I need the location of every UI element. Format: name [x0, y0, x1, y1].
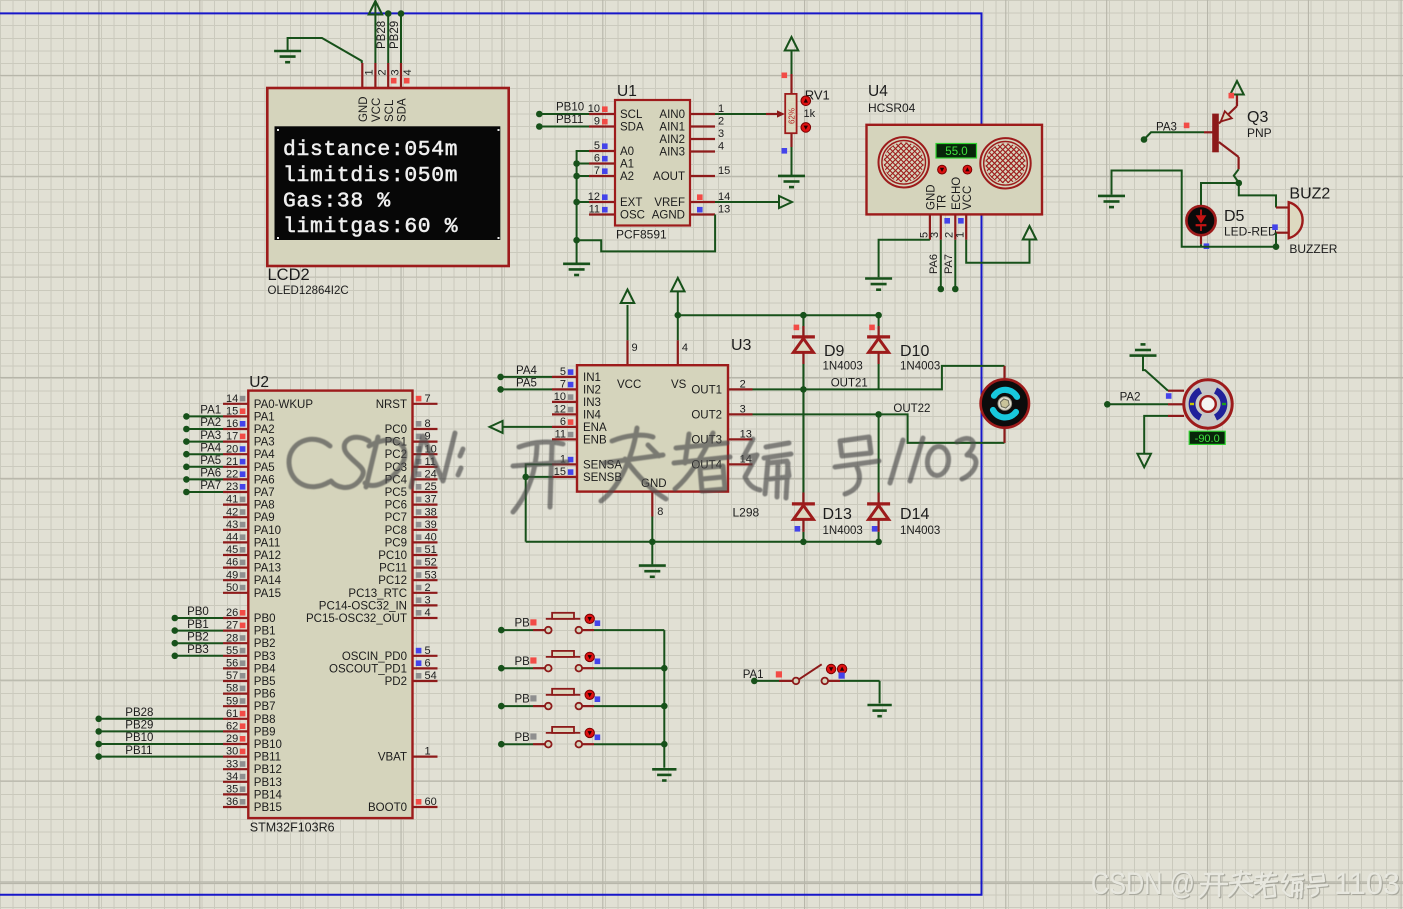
svg-text:1k: 1k: [804, 108, 816, 120]
svg-text:46: 46: [226, 557, 238, 569]
svg-text:limitgas:60 %: limitgas:60 %: [283, 215, 458, 239]
svg-text:PC9: PC9: [385, 537, 407, 549]
svg-text:GND: GND: [358, 96, 370, 122]
svg-text:2: 2: [740, 379, 746, 391]
svg-text:22: 22: [226, 469, 238, 481]
svg-text:9: 9: [594, 116, 600, 128]
svg-text:41: 41: [226, 494, 238, 506]
svg-text:PA2: PA2: [1120, 392, 1141, 404]
svg-text:40: 40: [425, 532, 437, 544]
svg-text:OSC: OSC: [620, 210, 645, 222]
svg-text:14: 14: [718, 191, 730, 203]
svg-text:10: 10: [554, 391, 566, 403]
svg-text:13: 13: [740, 429, 752, 441]
svg-text:AIN2: AIN2: [659, 134, 685, 146]
svg-text:OSCIN_PD0: OSCIN_PD0: [342, 651, 407, 663]
svg-text:1N4003: 1N4003: [823, 361, 863, 373]
svg-text:25: 25: [425, 481, 437, 493]
svg-text:13: 13: [718, 204, 730, 216]
svg-text:60: 60: [425, 796, 437, 808]
svg-text:PA11: PA11: [254, 537, 280, 549]
svg-text:1: 1: [718, 103, 724, 115]
svg-text:PCF8591: PCF8591: [616, 228, 667, 242]
svg-text:49: 49: [226, 569, 238, 581]
svg-text:PA8: PA8: [254, 500, 275, 512]
svg-text:59: 59: [226, 695, 238, 707]
svg-text:PA6: PA6: [928, 254, 940, 274]
svg-text:PB8: PB8: [254, 714, 276, 726]
svg-text:PB10: PB10: [125, 732, 153, 744]
svg-text:55.0: 55.0: [945, 146, 967, 158]
svg-text:PA1: PA1: [254, 411, 275, 423]
svg-text:D10: D10: [900, 343, 929, 360]
svg-text:PA4: PA4: [200, 442, 221, 454]
svg-text:6: 6: [594, 153, 600, 165]
svg-text:57: 57: [226, 670, 238, 682]
svg-text:D9: D9: [824, 343, 845, 360]
svg-text:OUT22: OUT22: [893, 403, 930, 415]
svg-text:PNP: PNP: [1247, 126, 1272, 140]
svg-text:STM32F103R6: STM32F103R6: [250, 821, 335, 835]
svg-text:61: 61: [226, 708, 238, 720]
svg-text:1N4003: 1N4003: [900, 361, 940, 373]
svg-text:PB: PB: [515, 656, 531, 668]
svg-text:3: 3: [740, 404, 746, 416]
svg-text:IN2: IN2: [583, 384, 601, 396]
svg-text:BUZ2: BUZ2: [1289, 186, 1330, 203]
svg-text:PC7: PC7: [385, 512, 407, 524]
svg-text:20: 20: [226, 443, 238, 455]
svg-text:PB29: PB29: [125, 720, 153, 732]
svg-text:LCD2: LCD2: [268, 266, 310, 284]
svg-text:2: 2: [425, 582, 431, 594]
svg-text:PA6: PA6: [254, 474, 275, 486]
svg-text:PD2: PD2: [385, 676, 407, 688]
svg-text:11: 11: [589, 204, 600, 216]
svg-text:LED-RED: LED-RED: [1224, 225, 1277, 239]
svg-text:PA9: PA9: [254, 512, 275, 524]
svg-text:D5: D5: [1224, 208, 1245, 225]
svg-text:42: 42: [226, 506, 238, 518]
svg-text:34: 34: [226, 771, 238, 783]
svg-text:PB: PB: [515, 618, 531, 630]
svg-text:PC13_RTC: PC13_RTC: [348, 588, 407, 600]
svg-text:PA3: PA3: [200, 430, 221, 442]
svg-text:36: 36: [226, 796, 238, 808]
svg-text:7: 7: [425, 393, 431, 405]
svg-text:PA1: PA1: [743, 669, 764, 681]
svg-text:PA10: PA10: [254, 525, 281, 537]
svg-text:9: 9: [632, 342, 638, 354]
svg-text:AIN0: AIN0: [659, 109, 685, 121]
svg-text:ENA: ENA: [583, 422, 607, 434]
svg-text:IN3: IN3: [583, 397, 601, 409]
svg-text:43: 43: [226, 519, 238, 531]
svg-text:27: 27: [226, 620, 238, 632]
svg-text:PB10: PB10: [254, 739, 282, 751]
svg-text:30: 30: [226, 746, 238, 758]
svg-text:PA13: PA13: [254, 563, 281, 575]
svg-text:37: 37: [425, 494, 437, 506]
svg-text:PA7: PA7: [200, 480, 221, 492]
svg-text:PB11: PB11: [254, 752, 281, 764]
svg-text:NRST: NRST: [376, 399, 407, 411]
svg-text:PB4: PB4: [254, 663, 276, 675]
svg-text:14: 14: [226, 393, 238, 405]
svg-text:35: 35: [226, 784, 238, 796]
svg-text:AGND: AGND: [652, 210, 685, 222]
svg-text:HCSR04: HCSR04: [868, 101, 916, 115]
svg-text:PB: PB: [515, 694, 531, 706]
svg-text:BUZZER: BUZZER: [1289, 242, 1337, 256]
svg-text:OLED12864I2C: OLED12864I2C: [268, 285, 349, 297]
svg-text:A2: A2: [620, 171, 634, 183]
svg-text:VREF: VREF: [654, 197, 685, 209]
svg-text:PA14: PA14: [254, 575, 282, 587]
svg-text:VCC: VCC: [617, 379, 641, 391]
svg-text:1: 1: [955, 232, 967, 238]
svg-text:12: 12: [588, 191, 600, 203]
svg-text:28: 28: [226, 632, 238, 644]
svg-text:VCC: VCC: [962, 186, 974, 210]
svg-text:55: 55: [226, 645, 238, 657]
svg-text:SDA: SDA: [397, 98, 409, 122]
svg-text:PA5: PA5: [516, 378, 537, 390]
svg-text:8: 8: [657, 506, 663, 518]
svg-text:PB14: PB14: [254, 789, 283, 801]
svg-text:PB0: PB0: [187, 606, 209, 618]
svg-text:PA3: PA3: [254, 437, 275, 449]
svg-text:PB29: PB29: [389, 21, 401, 49]
svg-text:1: 1: [425, 746, 431, 758]
svg-text:4: 4: [402, 69, 414, 75]
svg-text:21: 21: [226, 456, 238, 468]
svg-text:Q3: Q3: [1247, 109, 1268, 126]
svg-text:6: 6: [560, 416, 566, 428]
svg-text:PA2: PA2: [200, 417, 221, 429]
svg-text:7: 7: [594, 165, 600, 177]
svg-text:58: 58: [226, 683, 238, 695]
svg-text:PB28: PB28: [125, 707, 153, 719]
svg-text:PC8: PC8: [385, 525, 407, 537]
svg-text:TR: TR: [936, 195, 948, 210]
svg-text:51: 51: [425, 544, 437, 556]
svg-text:12: 12: [554, 404, 566, 416]
svg-text:-90.0: -90.0: [1195, 433, 1220, 445]
svg-text:1: 1: [364, 69, 376, 75]
svg-text:A0: A0: [620, 146, 634, 158]
svg-text:6: 6: [425, 658, 431, 670]
svg-text:SCL: SCL: [620, 109, 643, 121]
svg-text:53: 53: [425, 569, 437, 581]
svg-text:PA12: PA12: [254, 550, 281, 562]
svg-text:PA3: PA3: [1156, 122, 1177, 134]
svg-text:62: 62: [226, 721, 238, 733]
svg-text:limitdis:050m: limitdis:050m: [283, 164, 458, 188]
svg-text:VS: VS: [671, 379, 687, 391]
svg-text:15: 15: [718, 165, 730, 177]
svg-text:CSDN @: CSDN @: [1091, 865, 1195, 901]
svg-text:PA5: PA5: [254, 462, 275, 474]
svg-text:PC6: PC6: [385, 500, 407, 512]
svg-text:U1: U1: [617, 83, 637, 100]
svg-text:PB0: PB0: [254, 613, 276, 625]
svg-text:62%: 62%: [787, 108, 796, 124]
svg-text:PC10: PC10: [378, 550, 407, 562]
svg-text:PC0: PC0: [385, 424, 407, 436]
svg-text:24: 24: [425, 469, 437, 481]
svg-text:PB1: PB1: [187, 619, 209, 631]
svg-text:52: 52: [425, 557, 437, 569]
svg-text:3: 3: [929, 232, 941, 238]
svg-text:3: 3: [389, 69, 401, 75]
svg-text:PC5: PC5: [385, 487, 407, 499]
svg-text:5: 5: [594, 140, 600, 152]
svg-text:IN4: IN4: [583, 409, 602, 421]
svg-text:PB15: PB15: [254, 802, 282, 814]
svg-text:D14: D14: [900, 506, 929, 523]
svg-text:PA7: PA7: [254, 487, 275, 499]
svg-text:PB28: PB28: [376, 21, 388, 49]
svg-text:AIN3: AIN3: [659, 147, 685, 159]
svg-text:1103: 1103: [1334, 865, 1400, 901]
svg-text:PB9: PB9: [254, 726, 276, 738]
svg-text:7: 7: [560, 379, 566, 391]
svg-text:PC15-OSC32_OUT: PC15-OSC32_OUT: [306, 613, 407, 625]
svg-text:3: 3: [425, 595, 431, 607]
svg-text:U2: U2: [249, 374, 269, 391]
svg-text:5: 5: [425, 645, 431, 657]
svg-text:8: 8: [425, 418, 431, 430]
svg-text:56: 56: [226, 658, 238, 670]
svg-text:38: 38: [425, 506, 437, 518]
svg-text:4: 4: [718, 141, 724, 153]
svg-text:17: 17: [226, 431, 238, 443]
svg-text:PC12: PC12: [378, 575, 407, 587]
svg-text:4: 4: [682, 342, 688, 354]
svg-text:1N4003: 1N4003: [823, 525, 863, 537]
svg-text:Gas:38 %: Gas:38 %: [283, 189, 391, 213]
svg-text:ENB: ENB: [583, 434, 607, 446]
svg-text:PB2: PB2: [187, 631, 209, 643]
svg-text:VBAT: VBAT: [378, 752, 407, 764]
svg-text:PB11: PB11: [125, 745, 152, 757]
svg-text:OSCOUT_PD1: OSCOUT_PD1: [329, 663, 407, 675]
svg-text:11: 11: [555, 429, 566, 441]
svg-text:PA0-WKUP: PA0-WKUP: [254, 399, 314, 411]
svg-text:PB3: PB3: [187, 644, 209, 656]
svg-text:distance:054m: distance:054m: [283, 138, 458, 162]
svg-text:PC14-OSC32_IN: PC14-OSC32_IN: [319, 600, 407, 612]
svg-text:5: 5: [560, 366, 566, 378]
svg-text:PB1: PB1: [254, 626, 276, 638]
svg-text:1N4003: 1N4003: [900, 525, 940, 537]
svg-text:PA15: PA15: [254, 588, 281, 600]
svg-text:50: 50: [226, 582, 238, 594]
svg-text:PB6: PB6: [254, 689, 276, 701]
svg-text:PA4: PA4: [516, 365, 537, 377]
svg-text:23: 23: [226, 481, 238, 493]
svg-text:EXT: EXT: [620, 197, 642, 209]
svg-text:26: 26: [226, 607, 238, 619]
svg-text:OUT21: OUT21: [831, 378, 868, 390]
svg-text:PB12: PB12: [254, 764, 282, 776]
svg-text:IN1: IN1: [583, 372, 601, 384]
svg-text:39: 39: [425, 519, 437, 531]
svg-text:PB7: PB7: [254, 701, 276, 713]
svg-text:54: 54: [425, 670, 437, 682]
svg-text:PB10: PB10: [556, 102, 584, 114]
svg-text:44: 44: [226, 532, 238, 544]
svg-text:PA7: PA7: [943, 254, 955, 274]
svg-text:AOUT: AOUT: [653, 171, 685, 183]
svg-text:SCL: SCL: [384, 99, 396, 122]
svg-text:3: 3: [718, 128, 724, 140]
svg-text:BOOT0: BOOT0: [368, 802, 407, 814]
svg-text:33: 33: [226, 758, 238, 770]
svg-text:29: 29: [226, 733, 238, 745]
svg-text:PB2: PB2: [254, 638, 276, 650]
svg-text:15: 15: [554, 466, 566, 478]
svg-text:2: 2: [377, 69, 389, 75]
svg-text:2: 2: [718, 116, 724, 128]
svg-text:4: 4: [425, 607, 431, 619]
svg-text:PC11: PC11: [379, 563, 407, 575]
svg-text:VCC: VCC: [371, 98, 383, 122]
svg-text:OUT1: OUT1: [691, 384, 722, 396]
svg-text:U3: U3: [731, 337, 752, 354]
svg-text:PA1: PA1: [200, 405, 221, 417]
svg-text:A1: A1: [620, 159, 634, 171]
svg-text:U4: U4: [868, 83, 888, 100]
svg-text:PB13: PB13: [254, 777, 282, 789]
svg-text:AIN1: AIN1: [659, 122, 685, 134]
svg-text:OUT2: OUT2: [691, 409, 722, 421]
svg-text:L298: L298: [733, 506, 760, 520]
svg-text:PB5: PB5: [254, 676, 276, 688]
svg-text:PA2: PA2: [254, 424, 275, 436]
svg-text:16: 16: [226, 418, 238, 430]
svg-text:PA5: PA5: [200, 455, 221, 467]
svg-text:PA4: PA4: [254, 449, 275, 461]
svg-text:45: 45: [226, 544, 238, 556]
svg-text:PB3: PB3: [254, 651, 276, 663]
svg-text:SDA: SDA: [620, 122, 644, 134]
svg-text:PB: PB: [515, 732, 531, 744]
svg-text:15: 15: [226, 406, 238, 418]
svg-text:PB11: PB11: [556, 114, 583, 126]
svg-text:10: 10: [588, 103, 600, 115]
svg-text:PA6: PA6: [200, 468, 221, 480]
svg-text:D13: D13: [823, 506, 852, 523]
